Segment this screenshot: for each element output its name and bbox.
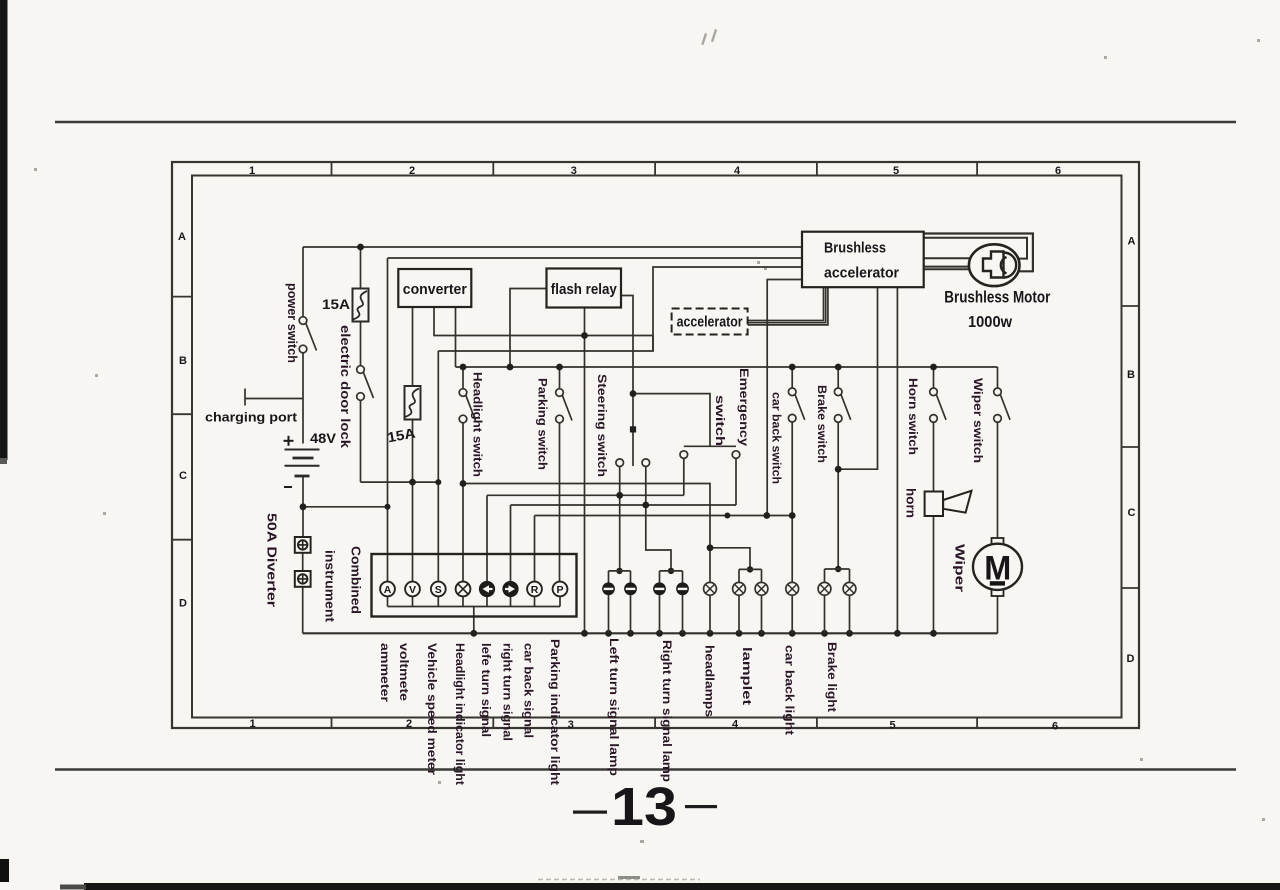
horn LS1: [925, 491, 972, 516]
lamp car back light: [786, 582, 799, 633]
wire: flash relay right output to steering switch: [621, 296, 633, 394]
scanner bottom-left black mark: [0, 859, 9, 882]
switch S8: brake switch: [834, 388, 850, 422]
charging port terminal tick: [244, 389, 246, 406]
top column tick marks: [332, 162, 978, 176]
svg-text:ammeter: ammeter: [378, 643, 392, 702]
wire: power switch riser: [302, 247, 304, 317]
switch S3: headlight switch: [459, 389, 475, 423]
wire: right-turn net y=505: [511, 504, 737, 506]
svg-text:Headlight indicator light: Headlight indicator light: [453, 643, 467, 785]
wire: parking switch top lead: [559, 367, 561, 389]
svg-text:Emergency: Emergency: [737, 368, 751, 446]
ground bus nodes: [470, 630, 477, 637]
gauge A ammeter: [380, 582, 395, 597]
wire: horn switch lower lead: [933, 422, 935, 491]
accelerator dashed box U3: [672, 309, 748, 335]
wire: steering right contact drop and jog to right lamp tap: [646, 467, 671, 571]
svg-text:D: D: [179, 598, 187, 610]
wire: ammeter rail y=258: [388, 257, 803, 259]
wire: charging port lead: [245, 398, 303, 400]
svg-text:C: C: [1128, 507, 1136, 519]
svg-text:lamplet: lamplet: [740, 647, 754, 705]
wire: emergency left contact drop: [683, 458, 685, 495]
flash relay box U2: [547, 269, 622, 308]
svg-text:Wiper switch: Wiper switch: [971, 378, 985, 463]
svg-text:Combined: Combined: [349, 546, 363, 614]
wire: converter right output: [455, 307, 457, 367]
node: headlight indicator junction: [460, 480, 467, 487]
svg-text:right turn signal: right turn signal: [501, 643, 515, 741]
svg-text:1: 1: [249, 718, 255, 730]
svg-text:50A Diverter: 50A Diverter: [264, 513, 278, 607]
node: F1 tap on top rail: [357, 244, 364, 251]
svg-text:4: 4: [732, 719, 739, 731]
battery plus mark: [284, 436, 294, 446]
wire: converter mid output to flash relay bottom y=335.5: [434, 307, 653, 336]
wire: steering lever stem: [632, 394, 634, 466]
left row tick marks: [172, 297, 192, 540]
lamp pair left turn signal: [609, 571, 631, 633]
wire: controller ground lead: [896, 287, 898, 633]
wire: power switch lower lead to battery: [302, 353, 304, 444]
svg-text:car back switch: car back switch: [770, 392, 784, 484]
svg-text:D: D: [1127, 653, 1135, 665]
wire: throttle bundle line 3: [748, 287, 828, 325]
svg-text:headlamps: headlamps: [703, 645, 717, 717]
scanner bottom black bar: [84, 883, 1280, 890]
node: reverse wire junction: [763, 512, 770, 519]
faint scan dotted line above bottom bar: [538, 879, 700, 881]
wire: door lock switch lower lead: [360, 400, 362, 482]
wire: lamplet feed elbow: [710, 548, 750, 570]
wire: main +48V top rail y=247: [303, 246, 802, 248]
lamp pair right turn signal: [660, 571, 683, 633]
wiper motor M2: [973, 538, 1022, 596]
grid row letters right: [1127, 236, 1136, 666]
switch S1: power switch: [299, 317, 316, 353]
node: car back switch tap: [789, 364, 796, 371]
svg-text:4: 4: [734, 165, 741, 177]
switch S2: electric door lock: [357, 366, 374, 401]
svg-text:horn: horn: [904, 488, 918, 518]
svg-text:car back signal: car back signal: [521, 643, 535, 738]
svg-text:Steering switch: Steering switch: [595, 374, 609, 477]
node: ammeter corner junction: [385, 504, 391, 510]
wire: door-lock to speedometer net y=482: [361, 481, 439, 483]
grid column numbers bottom: [249, 718, 1058, 733]
wire: motor phase wrap inner: [924, 238, 1027, 259]
switch S10: wiper switch: [994, 388, 1010, 422]
page number 13 with dashes: [573, 777, 717, 837]
gauge V voltmeter: [405, 582, 420, 597]
wire: headlight switch top lead: [462, 367, 464, 389]
svg-text:Right turn signal lamp: Right turn signal lamp: [660, 640, 674, 782]
wire: motor phase left entry 2: [924, 266, 969, 268]
wire: car back switch lower lead: [791, 422, 793, 583]
fuse F2 15A: [405, 386, 421, 420]
node: flash relay / converter junction: [581, 332, 588, 339]
svg-text:48V: 48V: [310, 430, 337, 446]
svg-text:Headlight switch: Headlight switch: [470, 372, 484, 477]
svg-text:Brushless: Brushless: [824, 241, 886, 257]
combined instrument box: [372, 554, 577, 617]
svg-text:Parking indicator light: Parking indicator light: [548, 639, 562, 785]
wire: riser x=653 linking y335 rail to accelerator: [652, 336, 654, 352]
wire: fuse F2 top lead from converter: [412, 307, 414, 386]
svg-text:2: 2: [409, 165, 415, 177]
wire: reverse indicator feed: [534, 516, 536, 582]
gauge right turn indicator: [503, 582, 518, 597]
node: right turn lamp tap: [668, 568, 674, 574]
node: flash relay feed tap: [507, 364, 514, 371]
battery minus mark: [284, 486, 292, 488]
wire: wiper motor bottom lead: [997, 596, 999, 633]
node: right turn junction: [642, 502, 649, 509]
svg-text:S: S: [435, 584, 442, 596]
node: parking switch tap: [556, 364, 563, 371]
wire: steering to emergency link elbow: [633, 394, 710, 447]
50A diverter fuse block 1: [295, 537, 311, 553]
svg-text:Brake light: Brake light: [825, 642, 839, 712]
gauge left turn indicator: [480, 582, 495, 597]
wire: brake switch lower lead to brake lamps: [837, 422, 839, 569]
wire: throttle bundle line 1: [748, 287, 824, 320]
bottom column tick marks: [332, 718, 978, 729]
wire: fuse F1 top lead: [360, 247, 362, 289]
wire: voltmeter feed below fuse F2: [412, 420, 414, 582]
wire: motor phase left entry 1: [924, 257, 970, 259]
svg-text:accelerator: accelerator: [824, 266, 899, 282]
svg-text:R: R: [531, 584, 539, 596]
gauge P parking indicator: [553, 582, 568, 597]
right row tick marks: [1122, 306, 1140, 588]
node: brake lamp tap: [835, 566, 841, 572]
svg-text:1: 1: [249, 165, 255, 177]
gauge S speedometer: [431, 582, 446, 597]
grid column numbers top: [249, 165, 1061, 177]
wire: controller reverse lead: [767, 280, 802, 516]
svg-text:1000w: 1000w: [968, 314, 1013, 331]
wire: horn bottom lead: [933, 516, 935, 633]
svg-text:P: P: [556, 584, 563, 596]
wire: ground bus y=633.3: [303, 632, 998, 634]
svg-text:electric door lock: electric door lock: [338, 325, 352, 448]
node: brake controller junction: [835, 466, 842, 473]
wire: steering left contact drop to lamp tap: [619, 467, 621, 571]
50A diverter fuse block 2: [295, 571, 311, 587]
battery 48V plates: [285, 450, 320, 477]
svg-text:15A: 15A: [322, 296, 350, 312]
svg-text:Brake switch: Brake switch: [815, 385, 829, 463]
switch S7: car back switch: [788, 388, 804, 422]
svg-text:power switch: power switch: [285, 283, 299, 363]
wire: brake switch top lead: [837, 367, 839, 388]
switch S6: emergency switch contacts: [680, 451, 740, 459]
wire: emergency right contact drop: [735, 458, 737, 505]
svg-text:A: A: [384, 584, 392, 596]
wire: horn switch top lead: [933, 367, 935, 388]
grid row letters left: [178, 231, 187, 610]
node: left turn lamp tap: [616, 568, 622, 574]
wire: right turn indicator feed: [510, 505, 512, 582]
wire: flash relay bottom output to ground bus: [584, 308, 586, 634]
wire: ammeter feed vertical x=387.5: [387, 258, 389, 582]
wire: switched rail y=351: [438, 267, 802, 351]
brushless accelerator controller box U4: [802, 232, 924, 288]
node: car back light junction: [789, 512, 796, 519]
wire: headlamp lamp drop: [709, 548, 711, 583]
svg-text:voltmete: voltmete: [397, 643, 411, 701]
svg-text:converter: converter: [403, 281, 467, 298]
svg-text:A: A: [1128, 236, 1136, 248]
wire: brake to controller link: [838, 287, 877, 469]
wire: battery negative lead: [302, 476, 304, 537]
switch S4: parking switch: [556, 389, 572, 423]
lamp pair lamplet: [739, 569, 762, 633]
node: brake switch tap: [835, 364, 842, 371]
wire: parking switch lower lead to P gauge: [559, 423, 561, 582]
svg-text:3: 3: [568, 719, 574, 731]
switch S5: steering switch contacts: [616, 459, 650, 467]
wire: car back switch top lead: [791, 367, 793, 388]
wire: instrument common tap: [473, 607, 475, 634]
instrument internal common bar: [388, 596, 561, 606]
svg-text:Brushless Motor: Brushless Motor: [944, 289, 1050, 307]
svg-text:V: V: [409, 584, 416, 596]
wire: left-turn net y=495.3: [487, 494, 684, 496]
converter box U1: [398, 269, 471, 307]
svg-text:6: 6: [1052, 721, 1058, 733]
node: headlight switch tap: [460, 364, 467, 371]
bottom rule: [55, 768, 1236, 771]
wire: left turn indicator feed: [486, 495, 488, 581]
wire: wiper switch lower lead to motor: [997, 422, 999, 538]
svg-text:B: B: [179, 355, 187, 367]
top rule: [55, 121, 1236, 124]
wire: motor phase wrap outer: [924, 234, 1033, 272]
wire: diverter to ground bus: [302, 587, 304, 634]
svg-text:2: 2: [406, 718, 412, 730]
node: headlamp branch junction: [707, 544, 714, 551]
brushless motor M1: [969, 244, 1020, 286]
svg-text:charging port: charging port: [205, 410, 298, 425]
node: steering feed junction: [630, 390, 637, 397]
wire: headlamp net y=483.5: [463, 484, 710, 548]
svg-text:5: 5: [893, 165, 899, 177]
svg-text:flash relay: flash relay: [551, 281, 618, 298]
wire: battery node to ammeter line: [303, 506, 388, 508]
wire: switch bus y=367: [456, 366, 998, 368]
svg-text:Left turn signal lamp: Left turn signal lamp: [607, 638, 621, 776]
wire: throttle bundle line 2: [748, 287, 826, 322]
svg-text:Parking switch: Parking switch: [536, 378, 550, 470]
fuse F1 15A: [353, 289, 369, 322]
svg-text:6: 6: [1055, 165, 1061, 177]
gauge headlight indicator lamp: [456, 582, 471, 597]
svg-text:accelerator: accelerator: [677, 315, 743, 331]
wire: wiper switch top lead: [997, 367, 999, 388]
svg-text:Horn switch: Horn switch: [906, 378, 920, 455]
svg-text:C: C: [179, 470, 187, 482]
outer title-block frame: [172, 162, 1139, 728]
node: voltmeter junction: [409, 479, 416, 486]
svg-text:instrument: instrument: [323, 550, 337, 623]
scanner left black bar: [0, 0, 8, 460]
svg-text:car back light: car back light: [783, 645, 797, 735]
node: left turn junction: [616, 492, 623, 499]
inner title-block frame: [192, 176, 1122, 718]
node: speedometer junction: [435, 479, 441, 485]
svg-text:3: 3: [571, 165, 577, 177]
wire: reverse net y=515.5: [535, 515, 793, 517]
svg-text:13: 13: [611, 777, 677, 837]
wire: emergency switch top bar: [684, 445, 736, 447]
svg-text:Vehicle speed meter: Vehicle speed meter: [425, 643, 439, 775]
wire: speedometer feed vertical x=438.3: [437, 351, 439, 582]
junction dots: [300, 244, 937, 637]
svg-text:B: B: [1127, 369, 1135, 381]
node: lamplet tap: [747, 566, 753, 572]
lamp headlamps: [704, 582, 717, 633]
gauge R reverse indicator: [527, 582, 542, 597]
wire: fuse F1 bottom lead to door lock switch: [360, 322, 362, 366]
svg-text:lefe turn signal: lefe turn signal: [479, 643, 493, 737]
node: horn switch tap: [930, 364, 937, 371]
wire: flash relay feed riser x=510: [510, 289, 547, 368]
wire: headlight switch lower lead to indicator: [462, 423, 464, 582]
node: battery output junction: [300, 503, 307, 510]
node: steering pivot square: [630, 426, 636, 432]
lamp pair brake light: [825, 569, 850, 633]
svg-text:5: 5: [889, 720, 895, 732]
svg-text:A: A: [178, 231, 186, 243]
node: emergency bar blob: [724, 513, 730, 519]
wire: diverter link: [302, 553, 304, 571]
wire: motor phase left entry 3: [924, 268, 970, 270]
svg-text:switch: switch: [713, 395, 727, 446]
svg-text:Wiper: Wiper: [953, 544, 967, 592]
switch S9: horn switch: [930, 388, 946, 422]
